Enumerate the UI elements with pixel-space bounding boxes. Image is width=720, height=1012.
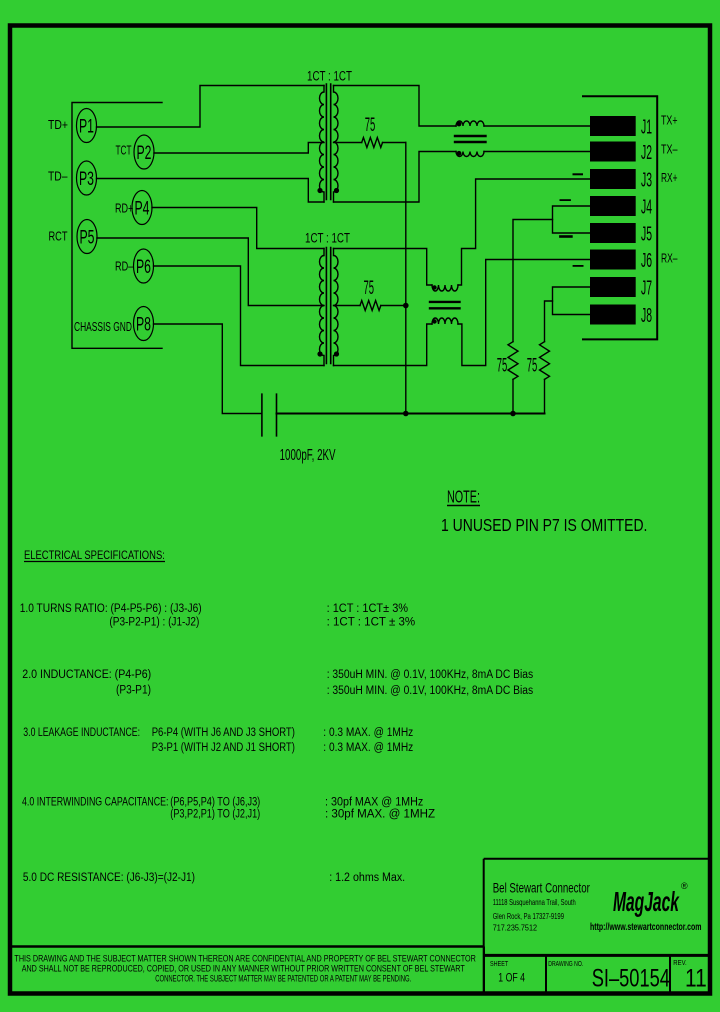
svg-text:J2: J2 <box>641 142 652 163</box>
svg-text:J6: J6 <box>641 250 652 271</box>
connector pin pad J4 <box>590 196 636 216</box>
wire J7/J8 to resistor R4 <box>545 301 553 342</box>
wire choke L2 top to J3 <box>458 179 590 285</box>
svg-text:J1: J1 <box>641 117 652 138</box>
title block outline <box>484 859 710 994</box>
connector pin pad J8 <box>590 305 636 325</box>
electrical specifications underline <box>24 561 165 563</box>
svg-text:P5: P5 <box>80 228 95 248</box>
svg-text:2.0 INDUCTANCE: (P4-P6): 2.0 INDUCTANCE: (P4-P6) <box>22 668 151 681</box>
svg-text:SHEET: SHEET <box>490 960 508 968</box>
pin P2 <box>134 135 154 169</box>
wire P1 to T1 primary top <box>97 86 325 128</box>
svg-text:Bel Stewart Connector: Bel Stewart Connector <box>493 880 590 896</box>
svg-text:CONNECTOR. THE SUBJECT MATTER: CONNECTOR. THE SUBJECT MATTER MAY BE PAT… <box>155 973 411 984</box>
svg-text:: 1.2 ohms Max.: : 1.2 ohms Max. <box>329 871 405 884</box>
connector J block bracket <box>583 96 657 339</box>
svg-text:(P3,P2,P1) TO (J2,J1): (P3,P2,P1) TO (J2,J1) <box>170 807 260 821</box>
L2 bottom polarity dot <box>432 319 436 323</box>
transformer T1 secondary winding <box>334 86 339 203</box>
svg-text:: 0.3 MAX. @ 1MHz: : 0.3 MAX. @ 1MHz <box>323 741 413 754</box>
svg-text:CHASSIS GND: CHASSIS GND <box>74 320 132 334</box>
wire P6 to T2 primary bottom <box>154 266 325 366</box>
svg-text:75: 75 <box>497 355 507 377</box>
title block divider sheet/drawing <box>545 955 547 993</box>
transformer T1 primary winding <box>320 86 325 203</box>
wire P3 to T1 primary bottom <box>97 179 325 203</box>
transformer T2 core <box>326 248 330 364</box>
wire J4/J5 to resistor R3 <box>513 220 553 342</box>
svg-text:1CT : 1CT: 1CT : 1CT <box>305 230 350 246</box>
pin P6 <box>134 249 154 283</box>
svg-text:1CT : 1CT: 1CT : 1CT <box>307 68 352 84</box>
svg-text:717.235.7512: 717.235.7512 <box>493 923 537 933</box>
svg-text:1 UNUSED PIN P7 IS OMITTED.: 1 UNUSED PIN P7 IS OMITTED. <box>441 517 647 536</box>
tick mark near J3 <box>574 173 583 175</box>
svg-text:TX+: TX+ <box>661 114 677 128</box>
wire T1 secondary center tap to resistor R1 <box>334 142 362 144</box>
svg-text:ELECTRICAL SPECIFICATIONS:: ELECTRICAL SPECIFICATIONS: <box>24 549 165 563</box>
svg-text:: 0.3 MAX. @ 1MHz: : 0.3 MAX. @ 1MHz <box>323 726 413 739</box>
svg-text:P4: P4 <box>135 199 150 219</box>
svg-text:TX–: TX– <box>661 143 678 157</box>
wire P2 to T1 primary center tap <box>154 143 324 154</box>
L2 top polarity dot <box>432 285 436 289</box>
svg-text:(P3-P1): (P3-P1) <box>116 684 151 697</box>
svg-text:RCT: RCT <box>49 230 68 244</box>
svg-text:http://www.stewartconnector.co: http://www.stewartconnector.com <box>590 921 702 933</box>
resistor R4 75 ohm <box>540 342 550 380</box>
svg-text:THIS DRAWING AND THE SUBJECT M: THIS DRAWING AND THE SUBJECT MATTER SHOW… <box>14 954 476 964</box>
connector pin pad J6 <box>590 250 636 270</box>
svg-text:DRAWING NO.: DRAWING NO. <box>548 960 583 968</box>
svg-text:RD–: RD– <box>115 260 134 274</box>
wire R2 to ground bus <box>381 305 406 307</box>
svg-text:: 30pf MAX. @ 1MHZ: : 30pf MAX. @ 1MHZ <box>325 806 435 820</box>
wire T2 secondary top to choke L2 top <box>334 249 433 286</box>
svg-text:TD–: TD– <box>48 170 68 184</box>
pin P3 <box>77 161 97 195</box>
svg-text:RX–: RX– <box>661 252 678 266</box>
T1 primary polarity dot <box>317 188 322 193</box>
svg-text:J4: J4 <box>641 197 652 218</box>
pin P1 <box>77 109 97 143</box>
svg-text:RD+: RD+ <box>115 202 133 216</box>
svg-text:J3: J3 <box>641 170 652 191</box>
svg-text:J7: J7 <box>641 278 652 299</box>
connector pin pad J3 <box>590 169 636 189</box>
svg-text:P1: P1 <box>79 117 94 137</box>
wire R3 to ground bus <box>512 379 514 413</box>
svg-text:P3-P1 (WITH J2 AND J1 SHORT): P3-P1 (WITH J2 AND J1 SHORT) <box>152 741 295 754</box>
title block divider horizontal <box>484 954 710 957</box>
wire T2 secondary center tap to resistor R2 <box>334 305 361 307</box>
pin P4 <box>132 191 152 225</box>
choke L1 core <box>455 136 486 142</box>
wire R1 to ground bus <box>383 142 406 144</box>
wire C1 to termination resistors (ground bus) <box>277 413 545 415</box>
svg-text:MagJack: MagJack <box>613 885 680 917</box>
svg-text:P8: P8 <box>136 315 151 335</box>
L1 top polarity dot <box>457 122 462 127</box>
L1 bottom polarity dot <box>457 151 462 156</box>
svg-text:TD+: TD+ <box>48 118 68 132</box>
capacitor C1 1000pF plates <box>262 394 277 436</box>
svg-text:P3: P3 <box>79 170 94 190</box>
connector pin pad J2 <box>590 142 636 162</box>
wire P8 chassis gnd to capacitor C1 <box>154 324 262 414</box>
disclaimer box top <box>10 945 484 948</box>
pin P5 <box>77 220 97 254</box>
svg-text:: 1CT : 1CT ± 3%: : 1CT : 1CT ± 3% <box>327 614 416 629</box>
svg-text:75: 75 <box>365 115 375 137</box>
svg-text:11118 Susquehanna Trail, South: 11118 Susquehanna Trail, South <box>493 898 576 907</box>
svg-text:5.0 DC RESISTANCE: (J6-J3)=(J: 5.0 DC RESISTANCE: (J6-J3)=(J2-J1) <box>23 871 195 884</box>
choke L2 core <box>430 302 460 308</box>
svg-text:J5: J5 <box>641 224 652 245</box>
T1 secondary polarity dot <box>334 188 339 193</box>
junction node R3 at capacitor line <box>510 411 516 417</box>
resistor R1 75 ohm <box>362 138 383 148</box>
connector pin pad J1 <box>590 116 636 136</box>
svg-text:1.0 TURNS RATIO: (P4-P5-P6) :: 1.0 TURNS RATIO: (P4-P5-P6) : (J3-J6) <box>20 602 202 615</box>
choke L1 bottom winding <box>456 152 484 157</box>
svg-text:RX+: RX+ <box>661 171 677 185</box>
svg-text:P6: P6 <box>136 258 151 278</box>
wire P4 to T2 primary top <box>152 208 324 249</box>
title block divider rev <box>669 955 671 993</box>
wire R4 to ground bus <box>544 379 546 413</box>
resistor R2 75 ohm <box>360 301 381 311</box>
svg-text:SI–50154: SI–50154 <box>592 964 670 993</box>
wire J7 J8 termination bracket <box>553 287 591 315</box>
svg-text:11: 11 <box>685 964 707 992</box>
pin P8 <box>134 307 154 341</box>
svg-text:J8: J8 <box>641 305 652 326</box>
wire choke L2 bottom to J6 <box>458 260 590 366</box>
note heading underline <box>447 505 480 507</box>
wire choke L1 top to J1 <box>484 125 590 127</box>
tick mark near J6 <box>574 265 583 267</box>
choke L2 top winding <box>432 285 458 291</box>
wire J4 J5 termination bracket <box>553 206 591 233</box>
T2 primary polarity dot <box>317 351 322 356</box>
wire T2 secondary bottom to choke L2 bottom <box>334 324 433 366</box>
svg-text:AND SHALL NOT BE REPRODUCED, C: AND SHALL NOT BE REPRODUCED, COPIED, OR … <box>22 964 465 974</box>
svg-text:1 OF 4: 1 OF 4 <box>498 973 525 985</box>
svg-text:Glen Rock, Pa 17327-9199: Glen Rock, Pa 17327-9199 <box>493 912 564 921</box>
tick mark near J5 <box>560 235 571 238</box>
transformer T2 primary winding <box>320 249 325 366</box>
svg-text:3.0 LEAKAGE INDUCTANCE:: 3.0 LEAKAGE INDUCTANCE: <box>23 726 140 740</box>
choke L2 bottom winding <box>432 318 458 324</box>
pin header box bracket <box>72 103 162 349</box>
junction node R2 to ground bus <box>403 303 409 309</box>
T2 secondary polarity dot <box>334 351 339 356</box>
svg-text:®: ® <box>681 881 688 891</box>
svg-text:: 350uH MIN. @ 0.1V, 100KHz,: : 350uH MIN. @ 0.1V, 100KHz, 8mA DC Bias <box>327 684 534 697</box>
svg-text:NOTE:: NOTE: <box>447 488 480 507</box>
svg-text:P6-P4 (WITH J6 AND J3 SHORT): P6-P4 (WITH J6 AND J3 SHORT) <box>152 726 295 739</box>
wire T1 secondary bottom to choke L1 bottom <box>334 152 457 203</box>
wire choke L1 bottom to J2 <box>484 151 590 153</box>
svg-text:75: 75 <box>364 278 374 300</box>
wire T1 secondary top to choke L1 top <box>334 86 457 127</box>
svg-text:4.0 INTERWINDING CAPACITANCE:: 4.0 INTERWINDING CAPACITANCE: <box>22 795 168 809</box>
ground bus vertical wire <box>405 143 407 414</box>
svg-text:75: 75 <box>527 355 537 377</box>
choke L1 top winding <box>456 121 484 126</box>
svg-text:TCT: TCT <box>116 144 132 158</box>
svg-text:(P3-P2-P1) : (J1-J2): (P3-P2-P1) : (J1-J2) <box>109 616 199 629</box>
tick mark near J4 <box>560 199 570 201</box>
svg-text:P2: P2 <box>137 144 152 164</box>
transformer T1 core <box>326 84 330 200</box>
transformer T2 secondary winding <box>334 249 339 366</box>
disclaimer box right <box>483 947 485 994</box>
svg-text:1000pF, 2KV: 1000pF, 2KV <box>280 446 336 464</box>
junction node ground bus at capacitor line <box>403 411 409 417</box>
svg-text:: 350uH MIN. @ 0.1V, 100KHz,: : 350uH MIN. @ 0.1V, 100KHz, 8mA DC Bias <box>327 668 534 681</box>
wire P5 to T2 primary center tap <box>97 238 324 306</box>
connector pin pad J7 <box>590 277 636 297</box>
resistor R3 75 ohm <box>508 342 518 380</box>
connector pin pad J5 <box>590 223 636 243</box>
